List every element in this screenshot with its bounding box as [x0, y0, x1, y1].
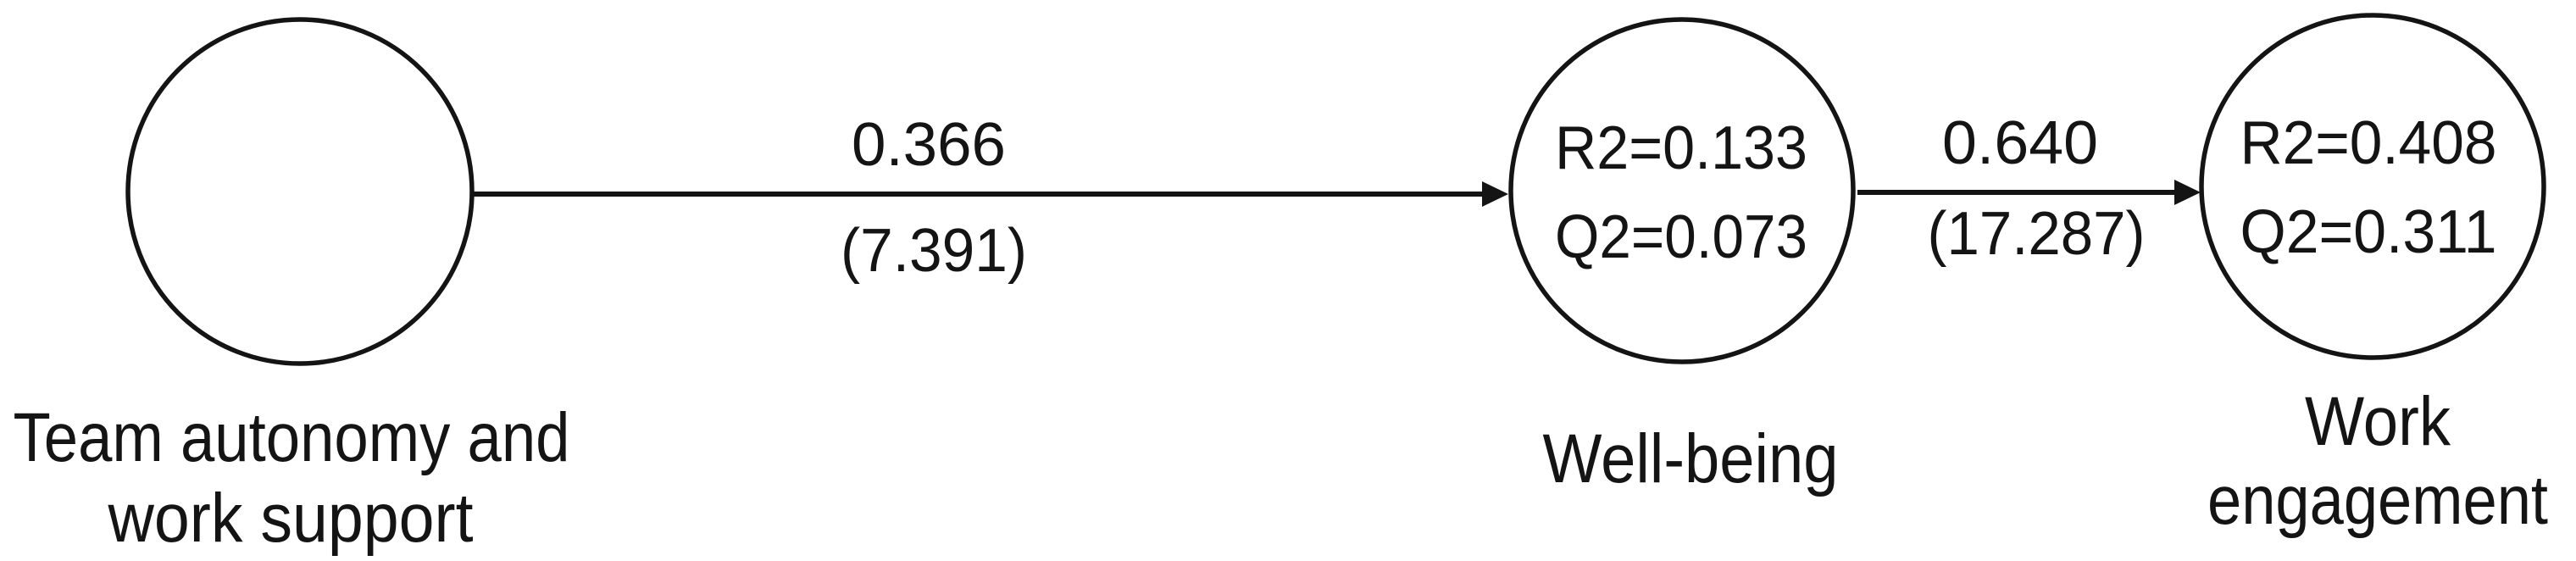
svg-text:Q2=0.311: Q2=0.311: [2240, 198, 2497, 266]
svg-text:0.640: 0.640: [1942, 109, 2098, 177]
path arrow: Well-being -> Work engagement (wire): [1857, 190, 2179, 195]
latent variable circle: Well-being: [1511, 19, 1853, 362]
latent variable circle: Team autonomy and work support: [128, 19, 472, 364]
svg-text:work support: work support: [108, 480, 474, 557]
svg-text:Q2=0.073: Q2=0.073: [1555, 203, 1807, 271]
svg-text:(7.391): (7.391): [841, 217, 1027, 285]
latent variable circle: Work engagement: [2201, 15, 2544, 358]
arrowhead at Well-being: [1482, 181, 1508, 207]
svg-text:Team autonomy and: Team autonomy and: [14, 399, 570, 476]
svg-text:R2=0.408: R2=0.408: [2240, 109, 2497, 177]
path arrow: Team autonomy -> Well-being (wire): [473, 192, 1488, 197]
svg-text:Well-being: Well-being: [1543, 420, 1839, 497]
svg-text:R2=0.133: R2=0.133: [1555, 114, 1807, 182]
svg-text:engagement: engagement: [2207, 462, 2548, 539]
svg-text:0.366: 0.366: [852, 111, 1006, 179]
svg-text:(17.287): (17.287): [1928, 200, 2146, 268]
svg-text:Work: Work: [2305, 383, 2451, 460]
arrowhead at Work engagement: [2174, 180, 2201, 205]
